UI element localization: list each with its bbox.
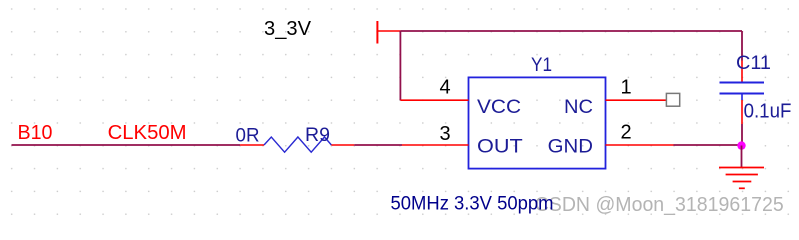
resistor R9	[240, 137, 354, 152]
svg-text:R9: R9	[305, 125, 330, 146]
svg-text:OUT: OUT	[477, 137, 523, 158]
svg-text:C11: C11	[736, 53, 771, 74]
no-connect square	[666, 93, 679, 106]
wire C11 bottom to junction	[741, 124, 743, 145]
power symbol 3_3V	[377, 21, 400, 44]
wire vertical drop to C11 top	[741, 31, 743, 61]
wire top horizontal from power to C11	[400, 30, 742, 32]
wire vertical drop to pin 4	[399, 31, 401, 100]
svg-text:3_3V: 3_3V	[264, 18, 312, 40]
capacitor C11	[720, 61, 765, 125]
svg-text:B10: B10	[18, 122, 53, 144]
svg-text:GND: GND	[548, 137, 593, 158]
svg-text:Y1: Y1	[531, 55, 552, 76]
wire pin 2 to junction	[674, 144, 743, 146]
pin 1 (NC)	[606, 99, 667, 101]
wire left CLK50M segment	[12, 144, 241, 146]
svg-text:VCC: VCC	[477, 97, 521, 118]
svg-text:50MHz 3.3V 50ppm: 50MHz 3.3V 50ppm	[391, 194, 554, 215]
pin 3 (OUT)	[402, 144, 469, 146]
pin 2 (GND)	[606, 144, 674, 146]
wire junction to ground	[741, 146, 743, 168]
ground	[719, 168, 764, 189]
junction	[737, 141, 745, 149]
oscillator Y1 body	[469, 77, 606, 168]
wire from resistor to pin 3	[354, 144, 402, 146]
svg-text:0R: 0R	[236, 126, 260, 147]
svg-text:3: 3	[440, 123, 451, 145]
svg-text:CLK50M: CLK50M	[108, 122, 187, 144]
svg-text:1: 1	[621, 77, 632, 99]
pin 4 (VCC)	[400, 99, 468, 101]
svg-text:NC: NC	[564, 97, 593, 118]
svg-text:0.1uF: 0.1uF	[744, 101, 792, 123]
svg-text:CSDN @Moon_3181961725: CSDN @Moon_3181961725	[535, 194, 784, 216]
svg-text:4: 4	[440, 77, 451, 99]
svg-text:2: 2	[621, 122, 632, 144]
